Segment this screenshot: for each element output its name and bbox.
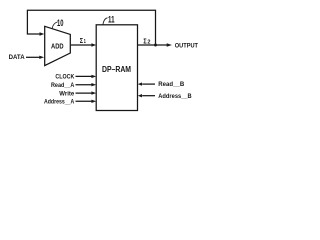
svg-text:DP–RAM: DP–RAM bbox=[102, 65, 131, 74]
wire Read_B bbox=[142, 83, 155, 85]
svg-text:DATA: DATA bbox=[9, 54, 25, 61]
wire feedback loop from node OUTPUT to adder input bbox=[27, 10, 155, 44]
adder U10 trapezoid bbox=[45, 26, 71, 65]
svg-text:CLOCK: CLOCK bbox=[55, 74, 74, 81]
arrowhead Address_B into DP-RAM right bbox=[138, 94, 142, 97]
wire Address_A bbox=[76, 100, 92, 102]
DP-RAM U11 box bbox=[96, 25, 137, 111]
arrowhead OUTPUT bbox=[167, 43, 172, 47]
arrowhead Address_A bbox=[91, 100, 96, 103]
svg-text:1: 1 bbox=[84, 39, 86, 45]
wire CLOCK bbox=[76, 75, 92, 77]
arrowhead Write bbox=[91, 91, 96, 94]
wire DATA input bbox=[26, 56, 40, 58]
junction node dot at output bbox=[154, 44, 157, 47]
svg-text:Σ: Σ bbox=[143, 38, 146, 45]
arrowhead Read_B into DP-RAM right bbox=[138, 82, 142, 85]
svg-text:Address__A: Address__A bbox=[44, 99, 75, 106]
svg-text:ADD: ADD bbox=[51, 41, 64, 50]
wire Read_A bbox=[76, 84, 92, 86]
wire sigma1 ADD to DP-RAM bbox=[71, 44, 92, 46]
svg-text:Write: Write bbox=[59, 90, 74, 97]
arrowhead feedback into ADD bbox=[40, 32, 45, 35]
wire sigma2 DP-RAM to OUTPUT bbox=[138, 44, 168, 46]
leader arc for label 11 bbox=[103, 18, 108, 25]
svg-text:Address__B: Address__B bbox=[158, 93, 192, 100]
leader arc for label 10 bbox=[52, 22, 58, 29]
arrowhead Read_A bbox=[91, 83, 96, 86]
wire Write bbox=[76, 92, 92, 94]
svg-text:2: 2 bbox=[147, 39, 150, 45]
wire Address_B bbox=[142, 95, 155, 97]
svg-text:Read__A: Read__A bbox=[51, 82, 75, 89]
arrowhead DATA into ADD bbox=[39, 56, 44, 59]
arrowhead CLOCK bbox=[91, 75, 96, 78]
svg-text:OUTPUT: OUTPUT bbox=[175, 43, 198, 50]
svg-text:10: 10 bbox=[57, 18, 64, 28]
arrowhead sigma1 into DP-RAM bbox=[91, 43, 96, 46]
svg-text:Σ: Σ bbox=[80, 38, 83, 45]
svg-text:11: 11 bbox=[108, 14, 115, 25]
svg-text:Read__B: Read__B bbox=[158, 81, 184, 88]
